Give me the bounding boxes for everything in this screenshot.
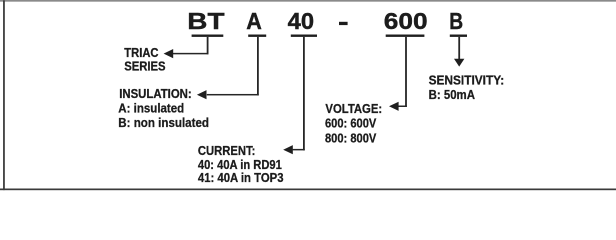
svg-text:SENSITIVITY:: SENSITIVITY: (429, 73, 505, 88)
border frame left line (3, 0, 5, 190)
svg-text:A: insulated: A: insulated (118, 101, 184, 116)
svg-text:BT: BT (187, 8, 224, 34)
wire horizontal to VOLTAGE arrow (397, 106, 407, 108)
underline under 40 (291, 35, 317, 37)
arrowhead to VOLTAGE (389, 102, 399, 111)
arrowhead down to SENSITIVITY (454, 59, 464, 67)
wire horizontal to INSULATION arrow (207, 94, 259, 96)
arrowhead to INSULATION (197, 90, 207, 99)
wire horizontal to TRIAC arrow (172, 53, 209, 55)
wire vertical from 40 (303, 37, 305, 150)
wire vertical from BT (207, 37, 209, 54)
underline under 600 (386, 35, 425, 37)
svg-text:600: 600V: 600: 600V (325, 116, 377, 131)
wire vertical from 600 (405, 37, 407, 107)
svg-text:800: 800V: 800: 800V (325, 130, 377, 145)
svg-text:40: 40 (288, 8, 314, 34)
border frame bottom line (0, 189, 616, 191)
svg-text:CURRENT:: CURRENT: (198, 143, 256, 158)
wire vertical from B (458, 37, 460, 60)
svg-text:SERIES: SERIES (124, 58, 166, 73)
wire horizontal to CURRENT arrow (293, 149, 305, 151)
svg-text:VOLTAGE:: VOLTAGE: (325, 101, 382, 116)
arrowhead to CURRENT (283, 145, 293, 154)
svg-text:600: 600 (384, 8, 428, 34)
wire vertical from A (257, 37, 259, 96)
svg-text:INSULATION:: INSULATION: (119, 86, 192, 101)
svg-text:A: A (246, 8, 262, 34)
border frame top line (0, 0, 616, 2)
underline under A (248, 35, 266, 37)
underline under BT (192, 35, 224, 37)
arrowhead to TRIAC SERIES (164, 49, 174, 58)
underline under B (450, 35, 467, 37)
svg-text:B: 50mA: B: 50mA (429, 87, 476, 102)
svg-text:B: B (449, 8, 463, 34)
svg-text:41: 40A in TOP3: 41: 40A in TOP3 (198, 170, 284, 185)
svg-text:B: non insulated: B: non insulated (118, 115, 209, 130)
part number hyphen (339, 22, 348, 25)
